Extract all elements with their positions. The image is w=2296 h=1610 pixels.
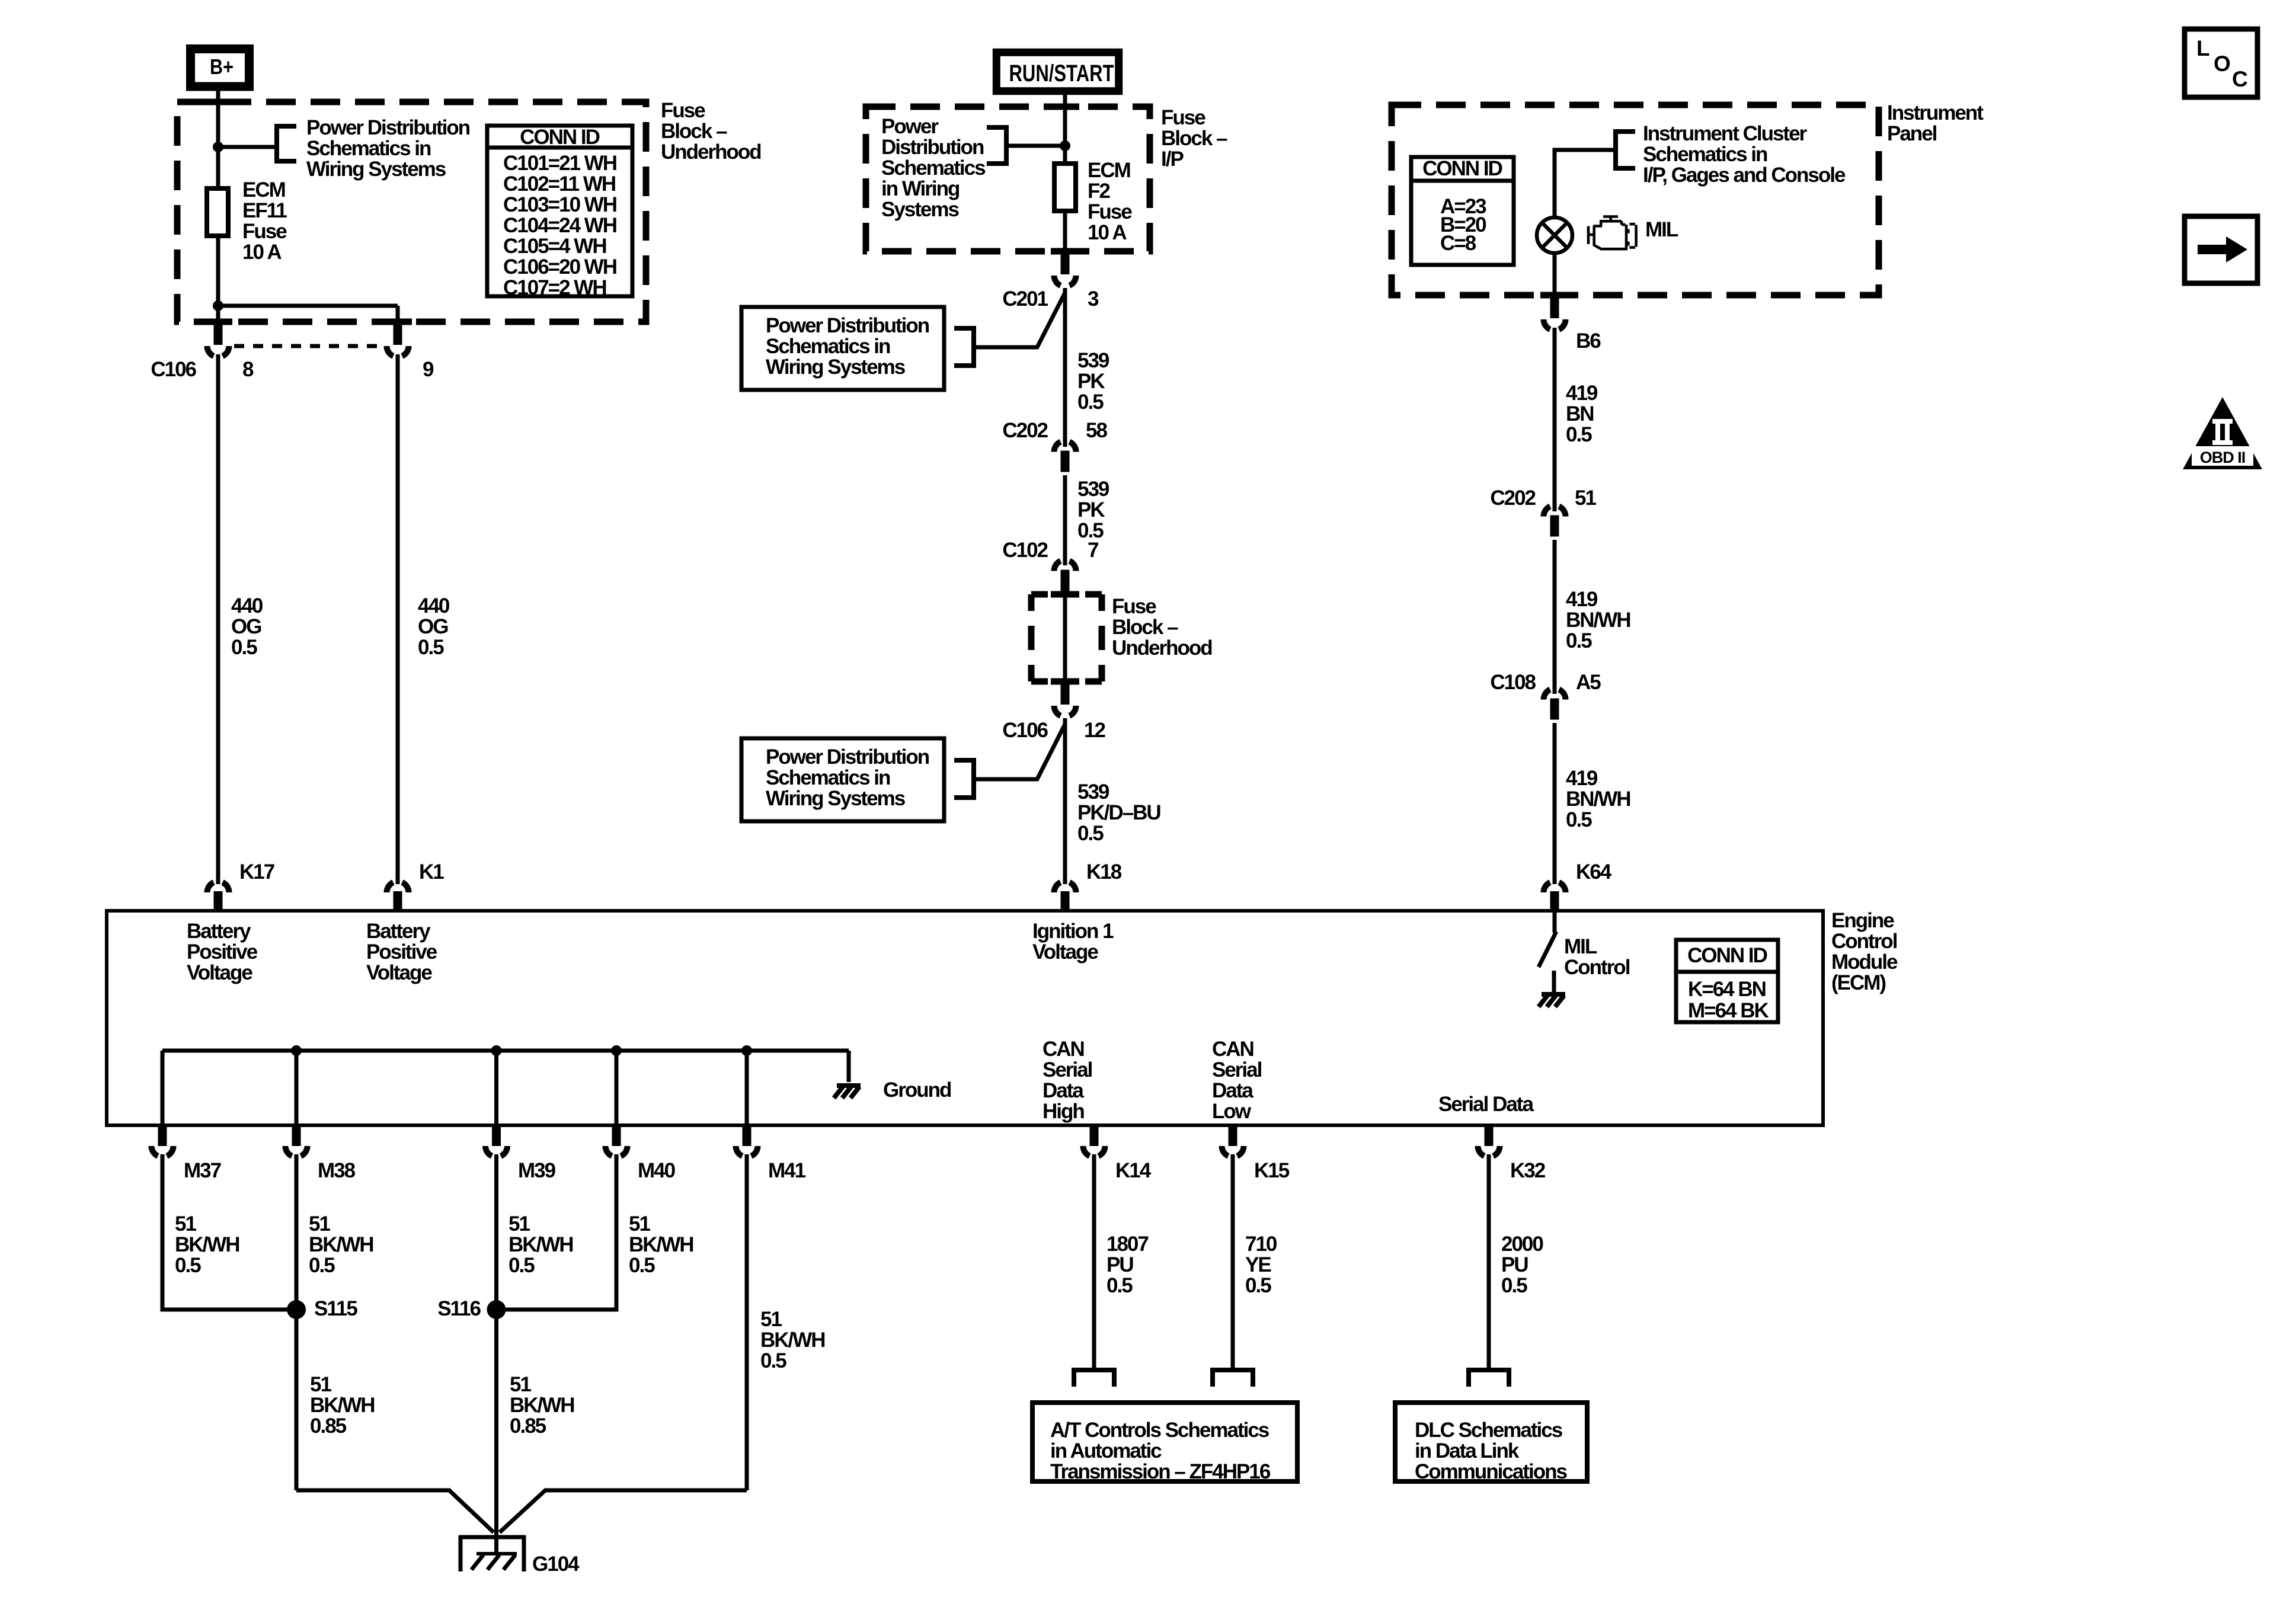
svg-text:BK/WH: BK/WH <box>629 1233 693 1256</box>
svg-text:K64: K64 <box>1576 860 1612 884</box>
svg-text:Block –: Block – <box>1161 127 1227 150</box>
svg-text:Data: Data <box>1043 1079 1084 1102</box>
svg-text:51: 51 <box>510 1373 531 1396</box>
svg-text:8: 8 <box>242 358 254 381</box>
svg-text:0.5: 0.5 <box>1107 1274 1133 1297</box>
svg-text:M40: M40 <box>638 1159 676 1182</box>
svg-text:Fuse: Fuse <box>661 99 705 122</box>
svg-text:Transmission – ZF4HP16: Transmission – ZF4HP16 <box>1050 1460 1271 1483</box>
svg-text:539: 539 <box>1077 349 1109 372</box>
svg-text:51: 51 <box>309 1212 330 1235</box>
svg-text:C106=20 WH: C106=20 WH <box>503 255 616 279</box>
svg-text:Instrument Cluster: Instrument Cluster <box>1643 122 1808 145</box>
svg-text:710: 710 <box>1245 1233 1277 1256</box>
svg-text:C101=21 WH: C101=21 WH <box>503 152 616 175</box>
svg-text:C103=10 WH: C103=10 WH <box>503 193 616 216</box>
svg-text:C202: C202 <box>1002 419 1048 442</box>
svg-text:Voltage: Voltage <box>187 961 252 984</box>
svg-text:RUN/START: RUN/START <box>1009 60 1114 87</box>
svg-text:0.5: 0.5 <box>509 1254 535 1277</box>
svg-text:K1: K1 <box>419 860 444 884</box>
svg-text:Low: Low <box>1212 1100 1252 1123</box>
svg-text:Schematics in: Schematics in <box>766 335 890 358</box>
svg-text:K=64 BN: K=64 BN <box>1688 978 1766 1001</box>
svg-text:A/T Controls Schematics: A/T Controls Schematics <box>1050 1419 1269 1442</box>
svg-text:0.85: 0.85 <box>510 1414 546 1438</box>
svg-text:Underhood: Underhood <box>661 140 761 164</box>
svg-text:Battery: Battery <box>187 920 251 943</box>
svg-text:C106: C106 <box>151 358 196 381</box>
svg-text:M=64 BK: M=64 BK <box>1688 999 1769 1022</box>
svg-text:S115: S115 <box>314 1297 357 1320</box>
svg-text:Module: Module <box>1831 950 1898 974</box>
svg-text:C106: C106 <box>1002 719 1048 742</box>
svg-text:C201: C201 <box>1002 287 1048 311</box>
svg-text:1807: 1807 <box>1107 1233 1148 1256</box>
svg-text:Power: Power <box>881 115 939 138</box>
svg-text:51: 51 <box>310 1373 331 1396</box>
svg-text:0.5: 0.5 <box>309 1254 335 1277</box>
svg-text:Wiring Systems: Wiring Systems <box>766 356 906 379</box>
svg-text:C102: C102 <box>1002 539 1048 562</box>
svg-text:Serial Data: Serial Data <box>1438 1093 1534 1116</box>
svg-text:Fuse: Fuse <box>1161 106 1205 129</box>
svg-text:51: 51 <box>629 1212 650 1235</box>
svg-text:Control: Control <box>1831 930 1897 953</box>
svg-text:OG: OG <box>231 615 261 638</box>
svg-text:C=8: C=8 <box>1440 232 1476 255</box>
svg-text:51: 51 <box>760 1308 782 1331</box>
svg-text:BN/WH: BN/WH <box>1566 609 1630 632</box>
svg-text:CONN ID: CONN ID <box>1422 157 1502 180</box>
svg-text:Schematics in: Schematics in <box>766 766 890 789</box>
svg-text:CONN ID: CONN ID <box>1687 944 1767 967</box>
svg-text:DLC Schematics: DLC Schematics <box>1415 1419 1563 1442</box>
svg-text:0.5: 0.5 <box>629 1254 655 1277</box>
svg-text:Positive: Positive <box>187 940 258 964</box>
svg-text:BN: BN <box>1566 402 1594 425</box>
svg-text:L: L <box>2196 36 2209 60</box>
svg-text:Positive: Positive <box>366 940 437 964</box>
svg-text:K17: K17 <box>239 860 274 884</box>
svg-text:BN/WH: BN/WH <box>1566 788 1630 811</box>
svg-text:(ECM): (ECM) <box>1831 971 1885 994</box>
svg-text:Block –: Block – <box>1112 616 1178 639</box>
svg-text:M41: M41 <box>768 1159 806 1182</box>
svg-text:MIL: MIL <box>1564 935 1597 958</box>
svg-text:C202: C202 <box>1490 486 1536 510</box>
svg-text:BK/WH: BK/WH <box>510 1394 574 1417</box>
svg-text:Schematics in: Schematics in <box>1643 143 1767 166</box>
svg-text:Fuse: Fuse <box>1088 200 1132 223</box>
svg-text:Wiring Systems: Wiring Systems <box>766 787 906 810</box>
svg-text:Communications: Communications <box>1415 1460 1567 1483</box>
svg-text:0.5: 0.5 <box>760 1349 786 1372</box>
svg-text:0.5: 0.5 <box>418 636 444 659</box>
svg-text:B6: B6 <box>1576 329 1601 353</box>
svg-text:in Wiring: in Wiring <box>881 177 960 200</box>
svg-text:Wiring Systems: Wiring Systems <box>306 158 446 181</box>
svg-text:I/P: I/P <box>1161 148 1184 171</box>
svg-text:539: 539 <box>1077 780 1109 804</box>
svg-text:PK: PK <box>1077 498 1105 521</box>
svg-text:Serial: Serial <box>1212 1058 1262 1081</box>
svg-text:2000: 2000 <box>1501 1233 1543 1256</box>
svg-text:Instrument: Instrument <box>1887 101 1984 124</box>
svg-text:12: 12 <box>1084 719 1105 742</box>
svg-text:C107=2 WH: C107=2 WH <box>503 276 606 299</box>
svg-text:MIL: MIL <box>1645 218 1678 241</box>
svg-text:M37: M37 <box>184 1159 221 1182</box>
svg-text:0.5: 0.5 <box>1566 629 1592 652</box>
svg-text:B+: B+ <box>210 55 234 79</box>
svg-text:F2: F2 <box>1088 180 1110 203</box>
svg-text:51: 51 <box>509 1212 530 1235</box>
svg-text:0.5: 0.5 <box>231 636 257 659</box>
svg-text:Block –: Block – <box>661 120 727 143</box>
svg-text:PK/D–BU: PK/D–BU <box>1077 801 1160 824</box>
svg-text:Ground: Ground <box>883 1078 951 1102</box>
svg-text:YE: YE <box>1245 1253 1271 1276</box>
svg-text:0.5: 0.5 <box>1566 423 1592 446</box>
svg-text:A5: A5 <box>1576 671 1601 694</box>
svg-text:Systems: Systems <box>881 198 960 221</box>
svg-text:0.85: 0.85 <box>310 1414 347 1438</box>
svg-text:PU: PU <box>1107 1253 1133 1276</box>
svg-text:0.5: 0.5 <box>1077 391 1104 414</box>
svg-text:Voltage: Voltage <box>366 961 432 984</box>
svg-text:Engine: Engine <box>1831 909 1894 932</box>
svg-text:51: 51 <box>175 1212 196 1235</box>
svg-text:419: 419 <box>1566 588 1598 611</box>
svg-text:0.5: 0.5 <box>1077 822 1104 845</box>
svg-text:51: 51 <box>1575 486 1596 510</box>
svg-text:OBD II: OBD II <box>2200 449 2246 466</box>
svg-text:K15: K15 <box>1254 1159 1290 1182</box>
svg-text:EF11: EF11 <box>242 199 287 222</box>
svg-text:M38: M38 <box>318 1159 356 1182</box>
svg-text:C105=4 WH: C105=4 WH <box>503 235 606 258</box>
svg-text:K14: K14 <box>1115 1159 1152 1182</box>
svg-text:C108: C108 <box>1490 671 1536 694</box>
svg-text:440: 440 <box>231 594 263 617</box>
svg-text:Voltage: Voltage <box>1032 940 1098 964</box>
svg-text:BK/WH: BK/WH <box>509 1233 573 1256</box>
svg-text:OG: OG <box>418 615 448 638</box>
svg-text:CAN: CAN <box>1043 1038 1084 1061</box>
svg-text:PU: PU <box>1501 1253 1528 1276</box>
svg-text:10 A: 10 A <box>242 241 282 264</box>
svg-text:G104: G104 <box>532 1553 580 1576</box>
svg-text:58: 58 <box>1086 419 1107 442</box>
svg-text:BK/WH: BK/WH <box>309 1233 373 1256</box>
svg-text:Underhood: Underhood <box>1112 636 1212 660</box>
svg-text:CAN: CAN <box>1212 1038 1253 1061</box>
svg-text:10 A: 10 A <box>1088 221 1127 244</box>
svg-text:O: O <box>2214 52 2230 76</box>
svg-text:C102=11 WH: C102=11 WH <box>503 172 615 196</box>
svg-text:419: 419 <box>1566 382 1598 405</box>
svg-text:Distribution: Distribution <box>881 136 984 159</box>
svg-text:BK/WH: BK/WH <box>175 1233 239 1256</box>
svg-text:539: 539 <box>1077 478 1109 501</box>
svg-text:High: High <box>1043 1100 1084 1123</box>
svg-text:0.5: 0.5 <box>1245 1274 1271 1297</box>
svg-text:BK/WH: BK/WH <box>310 1394 375 1417</box>
svg-text:Fuse: Fuse <box>1112 595 1156 618</box>
svg-text:Fuse: Fuse <box>242 220 287 243</box>
svg-text:C: C <box>2232 67 2247 91</box>
svg-text:Data: Data <box>1212 1079 1253 1102</box>
svg-text:Schematics: Schematics <box>881 156 986 180</box>
svg-text:ECM: ECM <box>1088 159 1130 182</box>
svg-text:ECM: ECM <box>242 178 285 201</box>
svg-text:Serial: Serial <box>1043 1058 1092 1081</box>
svg-text:Power Distribution: Power Distribution <box>306 116 470 139</box>
svg-text:K18: K18 <box>1086 860 1122 884</box>
svg-text:S116: S116 <box>437 1297 481 1320</box>
svg-text:Ignition 1: Ignition 1 <box>1032 920 1114 943</box>
svg-text:in Data Link: in Data Link <box>1415 1439 1520 1462</box>
svg-text:Control: Control <box>1564 956 1630 979</box>
svg-text:419: 419 <box>1566 767 1598 790</box>
svg-text:440: 440 <box>418 594 450 617</box>
svg-text:C104=24 WH: C104=24 WH <box>503 214 616 237</box>
svg-text:3: 3 <box>1088 287 1099 311</box>
svg-text:BK/WH: BK/WH <box>760 1329 825 1352</box>
svg-text:M39: M39 <box>518 1159 556 1182</box>
svg-text:9: 9 <box>423 358 434 381</box>
svg-text:I/P, Gages and Console: I/P, Gages and Console <box>1643 164 1846 187</box>
svg-text:CONN ID: CONN ID <box>520 126 600 149</box>
svg-text:Power Distribution: Power Distribution <box>766 314 929 337</box>
svg-text:0.5: 0.5 <box>1566 808 1592 831</box>
svg-text:PK: PK <box>1077 370 1105 393</box>
svg-text:Schematics in: Schematics in <box>306 137 431 160</box>
svg-text:in Automatic: in Automatic <box>1050 1439 1162 1462</box>
svg-text:Power Distribution: Power Distribution <box>766 745 929 769</box>
svg-text:K32: K32 <box>1510 1159 1546 1182</box>
svg-text:0.5: 0.5 <box>1501 1274 1527 1297</box>
svg-text:7: 7 <box>1088 539 1098 562</box>
svg-text:0.5: 0.5 <box>175 1254 201 1277</box>
svg-text:Battery: Battery <box>366 920 431 943</box>
svg-text:Panel: Panel <box>1887 122 1937 145</box>
